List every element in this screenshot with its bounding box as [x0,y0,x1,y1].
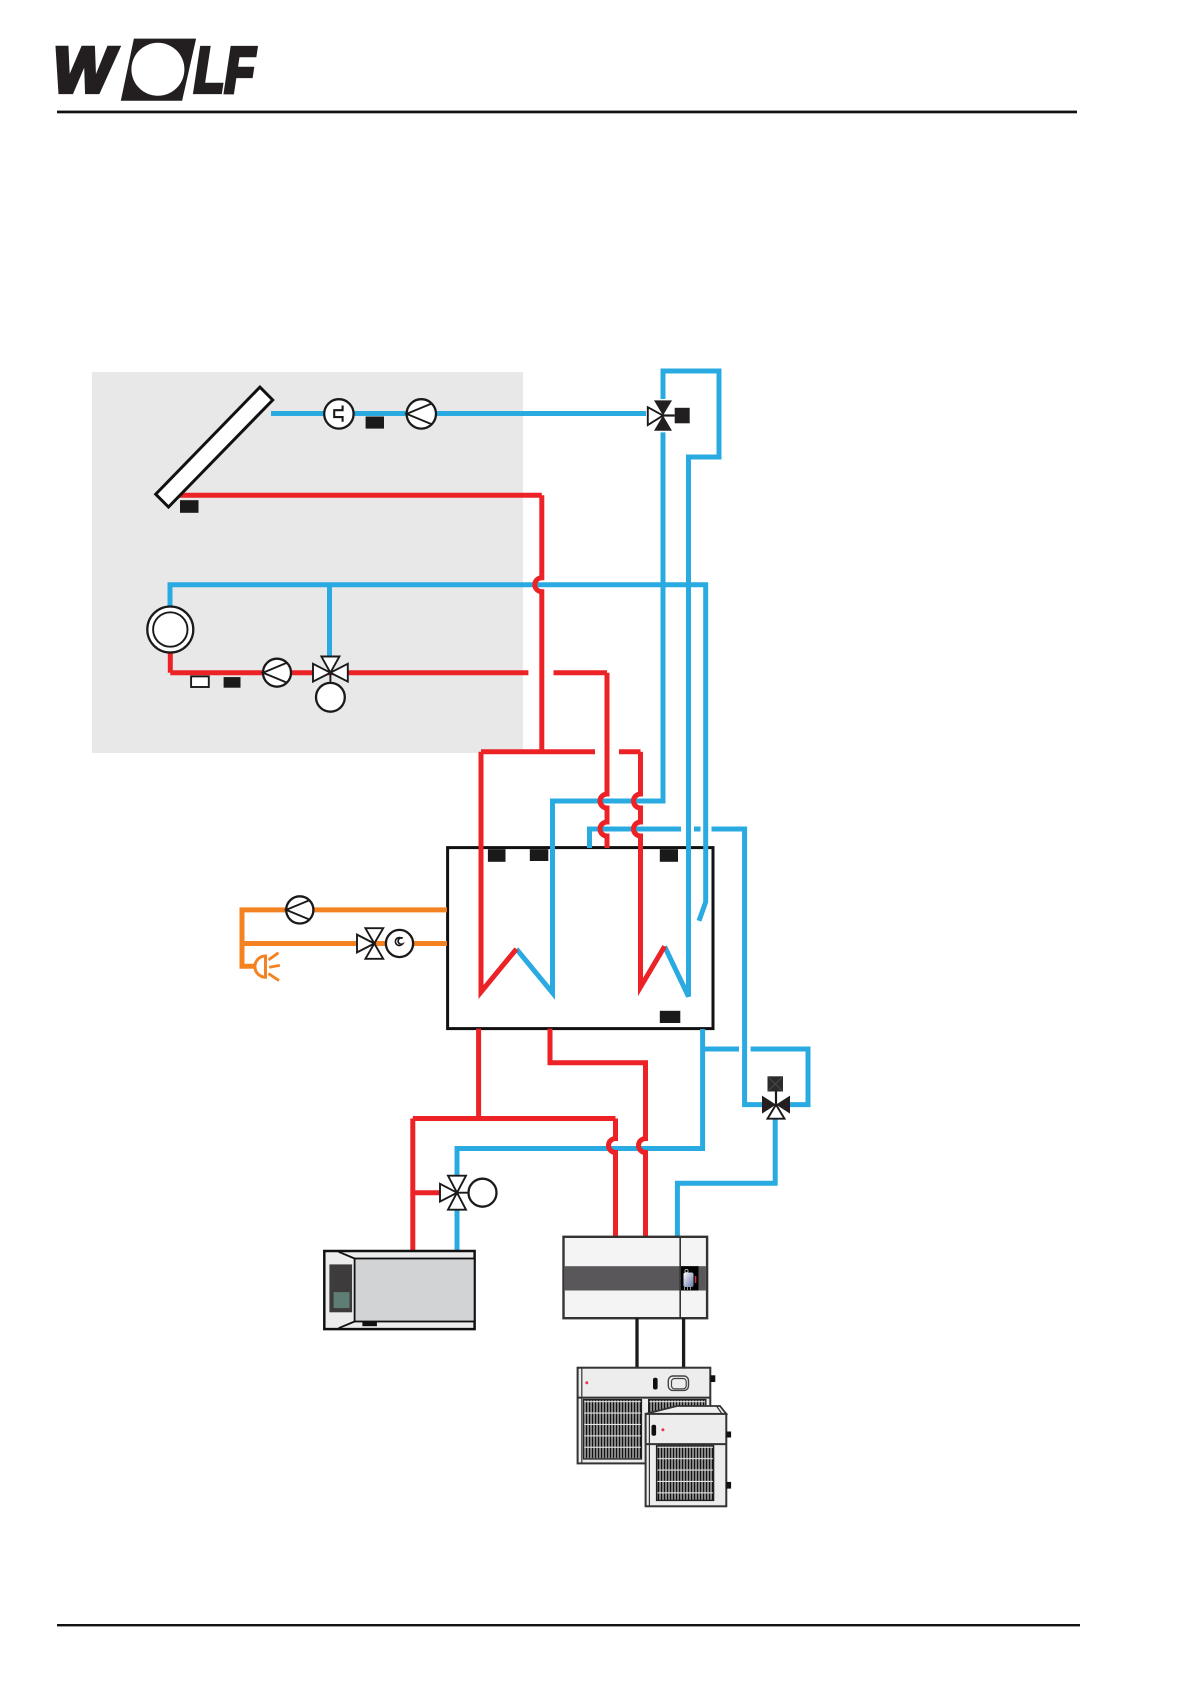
sensor: white square [191,676,209,687]
wire: cold water header (blue) with dip tube [170,585,706,921]
sensor: tank top left [488,849,506,862]
flow indicator (solar) [324,399,353,428]
valve: DHW/heating diverting valve with actuator [762,1076,790,1118]
solar collector [156,387,273,507]
svg-text:W: W [53,34,118,106]
sensor: tank top right [660,849,678,862]
wire: tank top port to DHW valve drop (blue) [590,829,682,848]
cable: module to heat pump 2 [682,1318,685,1369]
pump: circulation (orange circuit) [286,896,313,923]
wire: mixing loop at right valve (blue) [751,1049,808,1105]
bottom rule [57,1624,1080,1626]
sensor: collector return [180,500,199,513]
valve: boiler return 3-way with thermometer [440,1176,497,1210]
buffer tank [448,848,713,1029]
valve: circulation 3-way [357,928,413,959]
valve: solar 3-way with actuator [648,400,690,430]
sensor: tank top middle [530,849,549,861]
hydraulic module box [564,1237,708,1318]
wire: collector return (red) [167,493,542,498]
pump: solar circuit [407,399,436,428]
top rule [57,111,1077,114]
wire: right valve bottom to hydraulic module (blue) [677,1119,775,1238]
wire: solar flow pipe (blue) [271,411,646,416]
wire: solar valve bottom to left coil (blue) [516,432,663,992]
svg-text:LF: LF [194,35,257,106]
wire: solar valve top loop (blue) to right coil riser [663,371,719,997]
pump: DHW circuit [263,659,291,687]
wire: tank bottom to hydraulic module (red) [550,1029,646,1239]
tap symbol (orange) [255,953,280,981]
sensor: black square [224,677,241,688]
valve: DHW thermostatic mixing valve [313,657,348,712]
heat pump outdoor unit 2 [646,1406,732,1506]
wire: DHW hot line (red) [168,652,173,673]
wire: tank bottom to boiler (red) [476,1029,481,1119]
wire: left coil (red) [481,752,516,992]
sensor: solar flow [366,417,384,429]
wire: coil feed header (red) [481,749,595,754]
sensor: tank bottom [660,1011,681,1023]
wire: circulation circuit (orange) [242,910,447,966]
heat pump outdoor unit 1 [578,1368,716,1464]
DHW station circle [147,607,193,653]
gas boiler [324,1251,474,1329]
wire: right coil (red) [634,752,665,987]
cable: module to heat pump 1 [635,1318,638,1369]
wolf logo [53,34,257,106]
wire: boiler valve bottom to boiler (blue) [455,1209,460,1252]
wire: blue drop to DHW mixing valve [327,585,332,656]
solar zone background [92,372,523,753]
